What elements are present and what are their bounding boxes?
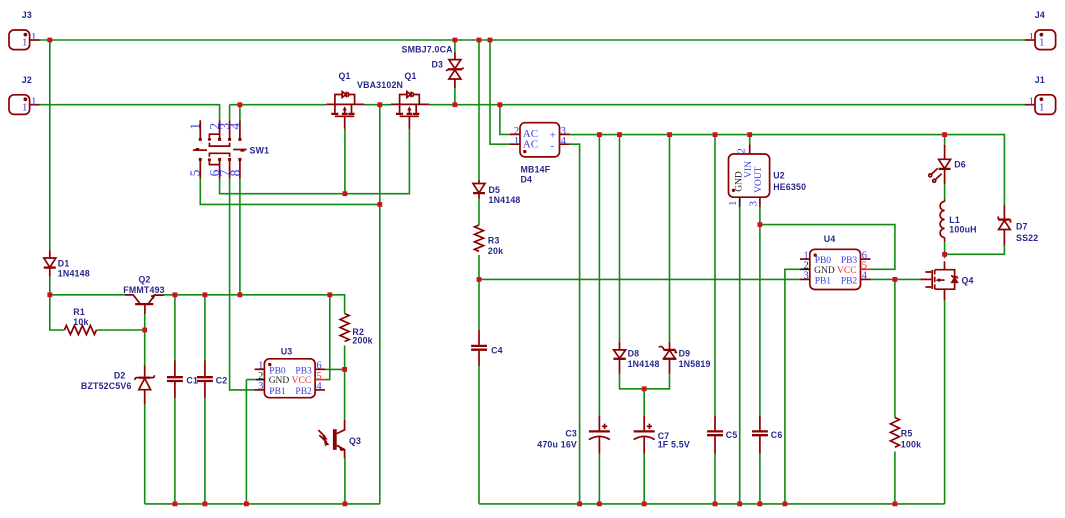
svg-text:Q3: Q3	[349, 436, 361, 446]
svg-text:R3: R3	[488, 236, 500, 246]
wire U4 GND link	[785, 269, 800, 504]
svg-text:GND: GND	[814, 266, 835, 276]
node bottom rail / C7	[642, 502, 647, 507]
capacitor C2	[197, 360, 213, 398]
svg-text:C1: C1	[186, 376, 198, 386]
inductor L1	[940, 200, 945, 242]
connector J4	[1025, 30, 1056, 50]
wire R1 to Q2 base node	[96, 329, 144, 331]
wire node down to R1	[50, 295, 65, 330]
wire D4 pin1 feed	[490, 40, 510, 144]
svg-text:1: 1	[1029, 96, 1035, 108]
node +rail / D8	[617, 132, 622, 137]
diode D1	[44, 250, 56, 276]
svg-text:3: 3	[258, 381, 263, 392]
node mid rail / D3	[453, 102, 458, 107]
svg-text:1: 1	[1029, 31, 1035, 43]
svg-text:PB1: PB1	[815, 277, 832, 287]
IC U4	[800, 249, 871, 289]
svg-text:GND: GND	[269, 376, 290, 386]
svg-text:HE6350: HE6350	[773, 182, 806, 192]
wire J2 to SW1 pin2	[40, 105, 220, 121]
node bottom rail / R5	[893, 502, 898, 507]
wire U2 VIN riser	[749, 135, 751, 145]
node top rail / D3	[453, 38, 458, 43]
zener diode D2	[135, 365, 154, 404]
svg-text:VOUT: VOUT	[754, 166, 764, 193]
bridge rectifier D4	[510, 123, 570, 157]
wire D8 column	[619, 135, 621, 342]
wire Q3 emitter to bottom rail	[344, 458, 346, 504]
schottky diode D9	[659, 342, 677, 374]
wire bottom rail right section	[479, 503, 945, 505]
wire D6 to L1	[944, 184, 946, 200]
node mid rail / D4 pin2	[498, 102, 503, 107]
wire Q1a gate drop	[344, 129, 346, 194]
svg-text:Q1: Q1	[405, 71, 417, 81]
mosfet Q1 second	[391, 92, 429, 129]
wire SW1 pin5 to Q1 mid column	[200, 178, 379, 204]
node +rail / C5	[713, 132, 718, 137]
node R2 / U3 pin6 / Q3	[342, 367, 347, 372]
svg-text:100k: 100k	[901, 440, 921, 450]
node bottom rail / D4 pin4	[577, 502, 582, 507]
polarized capacitor C7	[634, 416, 655, 454]
wire SW1 pin4 riser	[239, 105, 241, 121]
svg-text:Q2: Q2	[139, 274, 151, 284]
wire U3 VCC riser	[325, 295, 330, 380]
wire feedback rail to U4 PB1	[479, 278, 800, 280]
node bottom rail / C3	[597, 502, 602, 507]
wire D8-D9 cathode bus	[620, 374, 670, 389]
wire D4 pin2 feed	[500, 105, 510, 135]
svg-text:1: 1	[31, 31, 37, 43]
node U4 PB2 / R5 / Q4 gate	[893, 277, 898, 282]
node top rail / D5 column	[477, 38, 482, 43]
node +rail / D6	[942, 132, 947, 137]
svg-text:D6: D6	[954, 160, 966, 170]
svg-text:SS22: SS22	[1016, 233, 1038, 243]
svg-text:D4: D4	[521, 175, 533, 185]
schottky diode D7	[998, 205, 1010, 245]
mosfet Q1 first	[326, 92, 364, 129]
svg-text:1N4148: 1N4148	[58, 268, 90, 278]
wire D4 pin4 to bottom rail	[570, 144, 580, 504]
node rail295 / SW1 pin8	[238, 292, 243, 297]
svg-text:D7: D7	[1016, 222, 1028, 232]
wire C5 column upper	[714, 135, 716, 416]
node rail295 / C2	[203, 292, 208, 297]
node VOUT / C6 / VCC link	[758, 222, 763, 227]
svg-text:2: 2	[736, 148, 748, 154]
svg-text:5: 5	[188, 169, 203, 176]
wire C5 column lower	[714, 454, 716, 504]
svg-text:470u 16V: 470u 16V	[537, 439, 577, 449]
svg-text:1N4148: 1N4148	[628, 359, 660, 369]
node J3 rail / D1	[47, 38, 52, 43]
wire C3 column upper	[598, 135, 600, 416]
wire SW1 pin8 to rail295	[239, 178, 241, 294]
svg-text:FMMT493: FMMT493	[123, 285, 164, 295]
wire Q4 source to bottom rail	[944, 300, 946, 504]
wire SW1 pin3 riser	[229, 105, 231, 121]
wire rail295 D1 to Q2	[50, 294, 125, 296]
wire node to C4	[478, 279, 480, 330]
wire node to U3 pin6	[325, 368, 345, 370]
node R3 / C4 / feedback rail	[477, 277, 482, 282]
node bottom rail / C6	[758, 502, 763, 507]
svg-text:20k: 20k	[488, 246, 503, 256]
svg-text:J2: J2	[22, 75, 32, 85]
svg-text:3: 3	[804, 271, 809, 282]
wire U3 GND to bottom rail	[246, 380, 256, 504]
node +rail / U2 VIN	[747, 132, 752, 137]
wire node to D2	[144, 330, 146, 365]
wire D6 anode drop	[944, 135, 946, 145]
svg-text:L1: L1	[949, 215, 960, 225]
node mid rail / SW1 pin4	[238, 102, 243, 107]
svg-text:100uH: 100uH	[949, 225, 976, 235]
svg-text:C3: C3	[565, 429, 577, 439]
svg-text:VIN: VIN	[744, 161, 754, 178]
connector J2	[9, 95, 40, 115]
IC U3	[255, 359, 326, 398]
capacitor C4	[471, 330, 487, 366]
svg-text:D3: D3	[432, 60, 444, 70]
wire C2 column lower	[204, 398, 206, 504]
polarized capacitor C3	[589, 416, 610, 454]
svg-text:U3: U3	[281, 347, 293, 357]
node D8 D9 bus / C7	[642, 386, 647, 391]
svg-text:U4: U4	[824, 234, 836, 244]
node L1 / D7 / Q4 drain	[942, 252, 947, 257]
wire C1 column upper	[174, 295, 176, 361]
photo transistor Q3	[318, 420, 345, 458]
node pin5 line / mid column	[377, 202, 382, 207]
diode D8	[613, 342, 625, 374]
svg-text:PB3: PB3	[841, 256, 858, 266]
wire Q1 mid node column	[379, 105, 381, 504]
resistor R3	[475, 225, 484, 251]
svg-text:Q1: Q1	[339, 71, 351, 81]
node +rail / C3	[597, 132, 602, 137]
svg-text:1: 1	[514, 135, 520, 147]
svg-text:C5: C5	[726, 430, 738, 440]
transistor Q2	[125, 294, 164, 314]
capacitor C1	[167, 360, 183, 398]
svg-text:4: 4	[316, 381, 322, 392]
wire R3 to node	[478, 255, 480, 279]
svg-text:BZT52C5V6: BZT52C5V6	[81, 381, 132, 391]
connector J1	[1025, 95, 1056, 115]
svg-text:1F 5.5V: 1F 5.5V	[658, 439, 690, 449]
TVS diode D3	[446, 52, 463, 88]
node bottom rail / Q3 emitter	[343, 502, 348, 507]
wire C6 to bottom rail	[759, 454, 761, 504]
node bottom rail / U3 GND	[244, 502, 249, 507]
resistor R5	[890, 418, 899, 448]
wire x479 column top rail to D5	[478, 40, 480, 180]
node rail295 / C1	[173, 292, 178, 297]
svg-text:C4: C4	[491, 346, 503, 356]
wire C3 column lower	[598, 454, 600, 504]
svg-text:D9: D9	[679, 349, 691, 359]
svg-text:PB0: PB0	[269, 366, 286, 376]
node rail295 / U3 VCC	[327, 292, 332, 297]
svg-text:PB3: PB3	[295, 366, 312, 376]
svg-text:VCC: VCC	[292, 376, 312, 386]
svg-text:R5: R5	[901, 428, 913, 438]
wire VOUT to U4 VCC	[760, 225, 895, 270]
wire mid rail SW1 to Q1	[230, 104, 327, 106]
svg-text:PB0: PB0	[815, 256, 832, 266]
wire C2 column upper	[204, 295, 206, 361]
wire D3 top link	[454, 40, 456, 52]
node rail295 / D1	[47, 292, 52, 297]
svg-text:1: 1	[727, 201, 739, 207]
node mid rail / Q1 mid	[377, 102, 382, 107]
wire mid rail between Q1 and Q1	[364, 104, 391, 106]
capacitor C6	[752, 416, 768, 454]
wire SW1 pin7 to U3 PB1	[230, 178, 255, 390]
wire L1 to switch node	[944, 242, 946, 259]
svg-text:MB14F: MB14F	[521, 165, 551, 175]
svg-text:1: 1	[31, 96, 37, 108]
wire gate node to R5	[894, 279, 896, 417]
wire bottom rail left section	[145, 503, 380, 505]
wire D1 cathode to node	[49, 277, 51, 295]
svg-text:4: 4	[862, 271, 868, 282]
wire Q2 base drop	[144, 314, 146, 330]
wire D9 column	[669, 135, 671, 342]
wire D3 bottom link	[454, 88, 456, 105]
svg-text:1N5819: 1N5819	[679, 359, 711, 369]
svg-text:1: 1	[1039, 37, 1045, 49]
node bottom rail / C2	[203, 502, 208, 507]
node bottom rail / U2 GND	[737, 502, 742, 507]
svg-text:-: -	[550, 140, 554, 152]
wire D2 column to bottom rail	[144, 405, 146, 504]
wire U4 PB2 to Q4 gate	[871, 278, 921, 280]
svg-text:D2: D2	[114, 370, 126, 380]
switch SW1	[188, 120, 247, 178]
svg-text:VCC: VCC	[837, 266, 857, 276]
svg-text:SW1: SW1	[250, 146, 270, 156]
wire switch node to D7 anode	[945, 245, 1005, 254]
wire net VIN+ top rail J3-J4	[40, 39, 1026, 41]
wire C1 column lower	[174, 398, 176, 504]
diode D5	[473, 180, 485, 199]
svg-text:1N4148: 1N4148	[489, 195, 521, 205]
svg-text:4: 4	[227, 123, 242, 130]
wire C7 to bottom rail	[643, 454, 645, 504]
node gate line / Q1a	[343, 191, 348, 196]
svg-text:3: 3	[748, 200, 760, 206]
svg-text:Q4: Q4	[962, 276, 974, 286]
node R1 / Q2 base / D2	[142, 328, 147, 333]
wire bus to C7	[643, 389, 645, 416]
node bottom rail / U4 GND	[783, 502, 788, 507]
node +rail / D9	[667, 132, 672, 137]
svg-text:PB2: PB2	[841, 277, 858, 287]
svg-text:D8: D8	[628, 349, 640, 359]
resistor R1	[64, 326, 96, 335]
svg-text:1: 1	[188, 123, 203, 130]
svg-text:200k: 200k	[352, 335, 372, 345]
svg-text:1: 1	[22, 101, 28, 113]
node top rail / D4 pin1	[488, 38, 493, 43]
wire D1 column from top rail	[49, 40, 51, 250]
svg-text:C2: C2	[216, 376, 228, 386]
svg-text:D5: D5	[489, 185, 501, 195]
wire R2 to U3 PB3 node	[344, 346, 346, 370]
node bottom rail / C5	[713, 502, 718, 507]
mosfet Q4	[920, 261, 957, 300]
capacitor C5	[707, 416, 723, 454]
svg-text:PB1: PB1	[269, 387, 286, 397]
svg-text:J3: J3	[22, 10, 32, 20]
svg-text:VBA3102N: VBA3102N	[357, 80, 403, 90]
svg-text:PB2: PB2	[295, 387, 312, 397]
svg-text:R1: R1	[73, 307, 85, 317]
resistor R2	[340, 314, 349, 342]
svg-text:J4: J4	[1035, 10, 1045, 20]
wire R5 to bottom rail	[894, 452, 896, 504]
wire SW1 pin6 to Q1 gates	[220, 129, 410, 194]
wire rail295 Q2 to R2	[164, 295, 345, 314]
wire node to Q3 collector	[344, 369, 346, 419]
svg-text:10k: 10k	[73, 317, 88, 327]
svg-text:AC: AC	[523, 139, 538, 151]
wire D5 to R3	[478, 199, 480, 225]
svg-text:U2: U2	[773, 171, 785, 181]
wire rectified + rail to D7 corner	[570, 135, 1005, 206]
svg-text:8: 8	[227, 169, 242, 176]
wire mid rail Q1 to J1	[429, 104, 1025, 106]
regulator U2	[727, 145, 770, 208]
wire U2 GND to bottom rail	[739, 207, 741, 504]
svg-text:1: 1	[22, 37, 28, 49]
wire C4 to bottom rail	[478, 366, 480, 504]
svg-text:4: 4	[561, 135, 567, 147]
LED D6	[929, 145, 951, 184]
svg-text:J1: J1	[1035, 75, 1045, 85]
svg-text:C6: C6	[771, 430, 783, 440]
node bottom rail / C1	[173, 502, 178, 507]
svg-text:SMBJ7.0CA: SMBJ7.0CA	[402, 45, 454, 55]
connector J3	[9, 30, 40, 50]
svg-text:D1: D1	[58, 259, 70, 269]
svg-text:1: 1	[1039, 101, 1045, 113]
wire U2 VOUT column to C6	[759, 207, 761, 416]
